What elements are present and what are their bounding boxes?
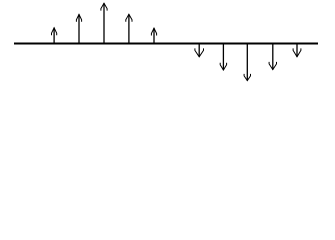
up impulse 3: [101, 3, 107, 43]
up impulse 5: [151, 28, 156, 43]
down impulse 7: [220, 44, 226, 70]
up impulse 4: [126, 14, 132, 43]
down impulse 6: [195, 44, 204, 57]
axis line: [14, 42, 318, 44]
down impulse 9: [269, 44, 276, 70]
down impulse 8: [244, 44, 250, 81]
down impulse 10: [293, 44, 301, 57]
up impulse 2: [76, 14, 81, 43]
up impulse 1: [52, 28, 57, 43]
